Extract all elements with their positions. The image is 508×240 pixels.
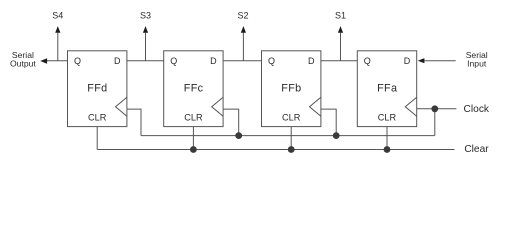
- wire S2 tap up: [242, 33, 244, 61]
- svg-text:CLR: CLR: [88, 113, 107, 123]
- junction dot clock line at FFa: [431, 105, 438, 112]
- svg-text:D: D: [404, 56, 411, 66]
- svg-text:S1: S1: [335, 10, 346, 20]
- flip-flop FFa clock wedge: [405, 97, 416, 116]
- flip-flop U2 FFb body: [262, 51, 321, 127]
- svg-text:FFb: FFb: [281, 82, 301, 94]
- svg-text:Q: Q: [74, 56, 81, 66]
- svg-text:FFa: FFa: [377, 82, 397, 94]
- svg-text:FFc: FFc: [184, 82, 204, 94]
- svg-text:CLR: CLR: [184, 113, 203, 123]
- flip-flop FFd clock wedge: [116, 97, 127, 116]
- flip-flop U4 FFd body: [68, 51, 127, 127]
- arrowhead S2: [241, 26, 246, 33]
- wire FFb CLR drop: [290, 127, 292, 150]
- wire clock drop from junction: [434, 109, 436, 136]
- wire clear bus: [97, 149, 454, 151]
- arrowhead S4: [55, 26, 60, 33]
- svg-text:D: D: [210, 56, 217, 66]
- arrowhead S1: [338, 26, 343, 33]
- wire S4 tap up: [57, 33, 59, 61]
- wire FFd clock stub: [127, 109, 141, 136]
- flip-flop FFb clock wedge: [310, 97, 321, 116]
- arrowhead S3: [143, 26, 148, 33]
- wire FFd D to FFc Q: [127, 60, 164, 62]
- wire FFc D to FFb Q: [223, 60, 261, 62]
- wire FFc CLR drop: [192, 127, 194, 150]
- svg-text:S2: S2: [237, 10, 248, 20]
- svg-text:FFd: FFd: [87, 82, 107, 94]
- svg-text:S4: S4: [52, 10, 63, 20]
- flip-flop U3 FFc body: [164, 51, 223, 127]
- svg-text:Output: Output: [10, 58, 36, 68]
- wire S1 tap up: [340, 33, 342, 61]
- arrowhead serial output: [40, 58, 47, 63]
- svg-text:Q: Q: [170, 56, 177, 66]
- junction dot clear bus at FFa: [384, 146, 391, 153]
- svg-text:CLR: CLR: [378, 113, 397, 123]
- wire FFa clock stub to clock line: [417, 108, 457, 110]
- junction dot clear bus at FFb: [288, 146, 295, 153]
- flip-flop U1 FFa body: [357, 51, 416, 127]
- wire FFa CLR drop: [386, 127, 388, 150]
- svg-text:Q: Q: [268, 56, 275, 66]
- svg-text:S3: S3: [140, 10, 151, 20]
- svg-text:CLR: CLR: [282, 113, 301, 123]
- svg-text:Q: Q: [364, 56, 371, 66]
- wire serial input (right line to FFa D arrow): [424, 60, 455, 62]
- junction dot clear bus at FFc: [190, 146, 197, 153]
- wire serial output (FFd Q to left arrow): [47, 60, 68, 62]
- wire FFb D to FFa Q: [321, 60, 357, 62]
- wire FFd CLR drop: [96, 127, 98, 150]
- wire FFb clock stub: [321, 109, 336, 136]
- wire FFc clock stub: [223, 109, 239, 136]
- svg-text:Input: Input: [467, 58, 487, 68]
- wire clock bus: [141, 135, 435, 137]
- svg-text:Clock: Clock: [464, 104, 490, 115]
- svg-text:D: D: [308, 56, 315, 66]
- junction dot clock bus at FFc: [235, 132, 242, 139]
- flip-flop FFc clock wedge: [212, 97, 223, 116]
- arrowhead serial input: [418, 58, 425, 63]
- junction dot clock bus at FFb: [333, 132, 340, 139]
- svg-text:Clear: Clear: [464, 144, 489, 155]
- wire S3 tap up: [145, 33, 147, 61]
- svg-text:D: D: [114, 56, 121, 66]
